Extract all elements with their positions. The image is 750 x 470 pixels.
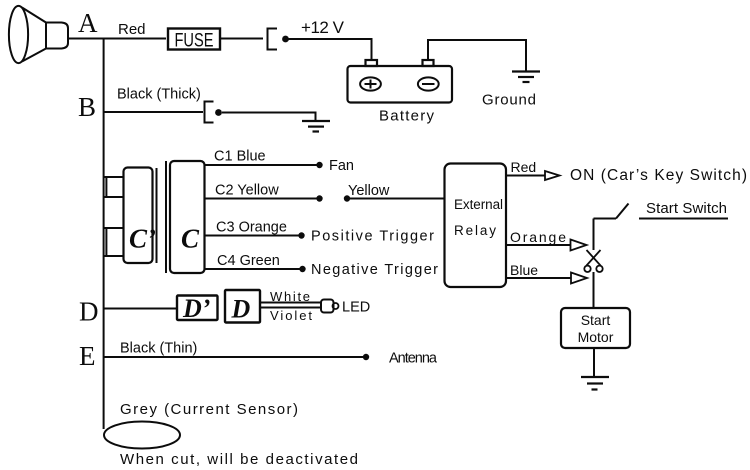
- svg-text:C4 Green: C4 Green: [217, 253, 280, 269]
- fuse FUSE: [168, 29, 220, 50]
- grey current sensor loop: [104, 422, 180, 449]
- svg-text:Black (Thick): Black (Thick): [117, 87, 201, 103]
- connector C' pin stubs: [104, 177, 124, 256]
- node dot C2 a: [316, 195, 322, 201]
- svg-text:Relay: Relay: [454, 223, 496, 238]
- svg-text:White: White: [270, 289, 310, 304]
- svg-text:D: D: [79, 297, 99, 327]
- svg-text:C2 Yellow: C2 Yellow: [215, 183, 279, 199]
- wire C3 orange: [205, 235, 302, 237]
- svg-text:C’: C’: [129, 224, 156, 254]
- wire relay orange output: [506, 244, 571, 246]
- wire E black thin: [104, 356, 366, 358]
- wire A: horn to fuse: [67, 38, 166, 40]
- horn (siren): [9, 6, 68, 63]
- node dot C2 b: [344, 195, 350, 201]
- node dot antenna: [363, 354, 369, 360]
- node dot C1: [316, 162, 322, 168]
- wire fuse to connector A: [220, 38, 263, 40]
- svg-text:Orange: Orange: [510, 229, 566, 245]
- scissors (cut mark): [584, 250, 602, 272]
- svg-text:Ground: Ground: [482, 92, 536, 109]
- svg-text:A: A: [78, 8, 98, 38]
- connector D': [177, 296, 218, 321]
- svg-text:Red: Red: [511, 159, 537, 175]
- svg-text:Blue: Blue: [510, 262, 538, 278]
- start motor M1: [561, 308, 630, 348]
- connector D: [225, 290, 260, 323]
- svg-text:Yellow: Yellow: [348, 183, 390, 199]
- arrow red: [545, 171, 560, 180]
- main bus wire (vertical): [103, 39, 105, 430]
- svg-text:Violet: Violet: [270, 308, 312, 323]
- wire yellow to relay: [347, 198, 445, 200]
- wire B black thick: [104, 111, 203, 113]
- svg-text:C1 Blue: C1 Blue: [214, 149, 266, 165]
- connector (bullet) B: [205, 102, 214, 123]
- svg-text:+12 V: +12 V: [301, 18, 345, 37]
- ground (B): [302, 121, 330, 132]
- svg-text:Fan: Fan: [329, 158, 354, 174]
- switch (start switch): [594, 204, 629, 251]
- svg-text:Battery: Battery: [379, 108, 435, 125]
- node dot C4: [299, 266, 305, 272]
- ground (battery): [512, 72, 540, 83]
- svg-text:E: E: [79, 341, 96, 371]
- wire violet: [260, 307, 321, 309]
- svg-text:Antenna: Antenna: [389, 351, 438, 367]
- node dot C3: [298, 232, 304, 238]
- connector C': [124, 168, 153, 264]
- svg-text:Black (Thin): Black (Thin): [120, 341, 197, 357]
- external relay U1: [445, 164, 507, 288]
- LED indicator: [321, 300, 334, 313]
- arrow orange: [571, 240, 587, 251]
- wire battery minus to ground: [428, 40, 526, 72]
- wire C2 yellow: [205, 198, 320, 200]
- connector C: [165, 161, 167, 273]
- wire relay red output: [506, 175, 545, 177]
- ground (motor): [581, 377, 609, 390]
- svg-text:C3 Orange: C3 Orange: [216, 220, 287, 236]
- svg-text:LED: LED: [342, 300, 370, 316]
- svg-text:Red: Red: [118, 21, 146, 38]
- svg-text:Grey (Current Sensor): Grey (Current Sensor): [120, 401, 298, 418]
- svg-text:Negative Trigger: Negative Trigger: [311, 262, 438, 278]
- connector (bullet) A: [268, 29, 278, 50]
- battery B1: [348, 60, 453, 103]
- svg-text:FUSE: FUSE: [175, 31, 214, 52]
- wire switch to start motor: [593, 272, 595, 308]
- wire C4 green: [205, 268, 303, 270]
- svg-text:External: External: [454, 197, 503, 212]
- wire relay blue output: [506, 277, 571, 279]
- svg-text:C: C: [181, 224, 200, 254]
- svg-text:B: B: [78, 92, 96, 122]
- wire D: [104, 308, 177, 310]
- svg-text:Motor: Motor: [578, 329, 614, 345]
- wire white: [260, 302, 321, 304]
- svg-text:ON (Car’s Key Switch): ON (Car’s Key Switch): [570, 167, 747, 184]
- svg-text:Start: Start: [581, 312, 611, 328]
- svg-text:D: D: [231, 295, 251, 324]
- svg-text:Start Switch: Start Switch: [646, 200, 727, 217]
- wire +12V to battery plus terminal: [288, 39, 372, 60]
- wire connector B to ground: [222, 113, 316, 122]
- svg-text:D’: D’: [182, 294, 210, 323]
- wire C1 blue: [205, 164, 320, 166]
- arrow blue: [571, 273, 587, 284]
- wire motor to ground: [593, 348, 595, 377]
